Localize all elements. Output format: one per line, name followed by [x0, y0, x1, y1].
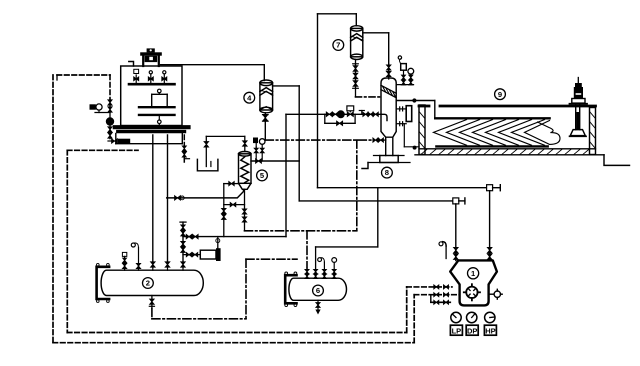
ground step right: [604, 155, 630, 166]
column C4 body: [260, 80, 273, 113]
label 6: [313, 285, 324, 296]
bath T9 top edge: [419, 105, 596, 108]
agitator motor M on V3: [140, 48, 162, 66]
V8 inlet valves: [387, 64, 391, 79]
feed valve group: [326, 106, 353, 118]
square tap on line to K1 suction: [453, 198, 465, 204]
vessel V8 body: [381, 78, 396, 137]
svg-text:DP: DP: [467, 326, 477, 335]
E5 instruments top right: [253, 138, 265, 162]
V2 nozzle 1: [122, 252, 126, 270]
V3 spray nozzle 1: [134, 69, 139, 84]
bath T9 left wall: [419, 105, 425, 155]
V6 vapor line to K1: [314, 188, 378, 279]
pump P1 inlet line: [183, 253, 200, 257]
E5 drain tie line: [224, 189, 247, 231]
level gauge drain to bath: [404, 124, 419, 150]
C4 packing chevrons: [260, 88, 273, 110]
gauge HP: [484, 312, 496, 335]
V3 downcomer 1: [151, 135, 156, 267]
dashdot line C4 bottoms to V8 neck: [265, 138, 385, 142]
vessel V6 shell: [289, 278, 347, 300]
K1 suction drop 2: [487, 191, 492, 261]
V6 bottom drain: [315, 300, 320, 314]
valve pair on feed header: [186, 234, 198, 238]
svg-text:6: 6: [316, 286, 320, 295]
V3 right side dashed drain: [182, 135, 189, 163]
V3 downcomer 2: [165, 135, 170, 267]
label 5: [257, 170, 268, 181]
vent line on V3 top left: [129, 62, 134, 67]
vessel V2 shell: [101, 270, 203, 295]
E5 left outlet loop: [222, 182, 239, 237]
C7 overhead run to K1: [318, 187, 487, 189]
V2 bottom drain: [149, 296, 154, 309]
K1 signal row 2: [414, 293, 459, 297]
bath T9 floor hatch: [415, 149, 604, 155]
label 7: [333, 40, 344, 51]
K1 side port: [489, 289, 503, 299]
K1 signal row 3: [431, 295, 452, 305]
column C7 body: [351, 26, 363, 60]
label 9: [495, 89, 506, 100]
V8 outlet to bath: [396, 99, 435, 118]
svg-text:HP: HP: [485, 326, 495, 335]
V2 feed branch x183: [180, 222, 186, 267]
feed bypass loop: [325, 114, 355, 125]
main feed riser x286: [183, 114, 286, 236]
label 8: [382, 167, 393, 178]
signal line outer dashed loop: [53, 75, 414, 343]
K1 suction drop 1: [454, 204, 459, 261]
V8 inlet dip tube: [381, 114, 387, 120]
C4 bottom valve: [263, 113, 269, 140]
V8 level gauge: [396, 106, 412, 126]
heat exchanger E5 body: [239, 152, 252, 190]
C7 packing chevrons: [351, 34, 363, 41]
agitator on bath: [570, 78, 588, 137]
V8 instrument header: [396, 84, 413, 86]
FRC instrument at V3 left: [90, 104, 111, 113]
V3 top distributor plate: [129, 83, 175, 86]
overhead line V3 to C4: [160, 65, 264, 81]
V3 spray nozzle 2: [148, 71, 153, 84]
main feed line to V8: [286, 113, 381, 115]
E5 inlet from seal pot: [204, 136, 247, 166]
gauge DP: [466, 312, 478, 335]
V8 packing band: [381, 85, 396, 97]
V6 nozzle 3 with PI hook: [318, 258, 327, 279]
V3 internal draft tube: [152, 89, 168, 106]
V3 skirt: [116, 134, 183, 144]
dashdot blowdown header y231: [245, 230, 357, 232]
V2 channel head: [97, 263, 110, 302]
svg-text:2: 2: [146, 279, 150, 288]
label 1: [468, 268, 479, 279]
V6 nozzle 1 dashdot: [305, 268, 309, 279]
V8 PI gauge with siphon: [398, 56, 406, 85]
C7 side draw to V8 top: [363, 33, 389, 64]
svg-text:8: 8: [385, 168, 389, 177]
K1 cylinder port: [464, 284, 480, 300]
pump P1 discharge: [216, 237, 220, 249]
seal pot tank: [197, 159, 218, 170]
vessel V3 crystallizer body: [121, 66, 182, 126]
gauge LP: [450, 312, 462, 335]
V6 channel head: [285, 272, 297, 307]
column C7 overhead loop: [318, 14, 357, 188]
V2 nozzle 2 with PI hook: [131, 243, 140, 270]
svg-text:7: 7: [336, 41, 340, 50]
svg-text:LP: LP: [452, 326, 462, 335]
V3 bottom flange band: [115, 127, 189, 131]
signal line drop to FRC instrument: [109, 75, 111, 99]
square tap on K1 line 2: [487, 185, 501, 191]
V3 internal plate upper: [139, 106, 175, 108]
serpentine coil: [434, 120, 561, 146]
C7 bottoms dashdot to V8: [356, 96, 382, 98]
V3 lower stem and float: [158, 115, 162, 126]
pump P1: [200, 248, 220, 261]
E5 outlet right to riser: [251, 159, 299, 163]
V8 PI gauge 2: [408, 68, 414, 85]
K1 PI hook: [439, 242, 446, 259]
valve string on V3 left line: [106, 99, 113, 139]
svg-text:9: 9: [498, 90, 502, 99]
K1 signal row 1: [407, 285, 452, 289]
E5 bottoms diagonal to header: [167, 189, 244, 200]
V3 spray nozzle 3: [162, 71, 167, 84]
bath T9 right wall: [590, 108, 596, 155]
label 4: [244, 92, 255, 103]
V3 internal plate lower: [139, 114, 175, 116]
C7 bottoms valve string: [353, 60, 359, 97]
label 2: [143, 278, 154, 289]
dashdot drop to V6: [306, 231, 308, 268]
signal line inner dashed loop: [67, 150, 406, 332]
V6 nozzle 4 with gauge: [332, 258, 337, 279]
E5 coil zigzag: [241, 157, 249, 183]
V2 nozzle valves on downcomers: [153, 262, 183, 270]
C4 overhead to compressor line: [273, 86, 453, 201]
dashdot drop at x357: [356, 140, 358, 231]
feed valves near V8: [359, 111, 378, 117]
V3 bottom drain valve: [108, 139, 130, 144]
compressor K1 body: [450, 260, 497, 305]
dashdot drain loop: [152, 259, 297, 319]
coil bottom header: [436, 145, 547, 147]
coil top header: [435, 117, 549, 119]
V8 bottom neck and support: [362, 137, 410, 168]
